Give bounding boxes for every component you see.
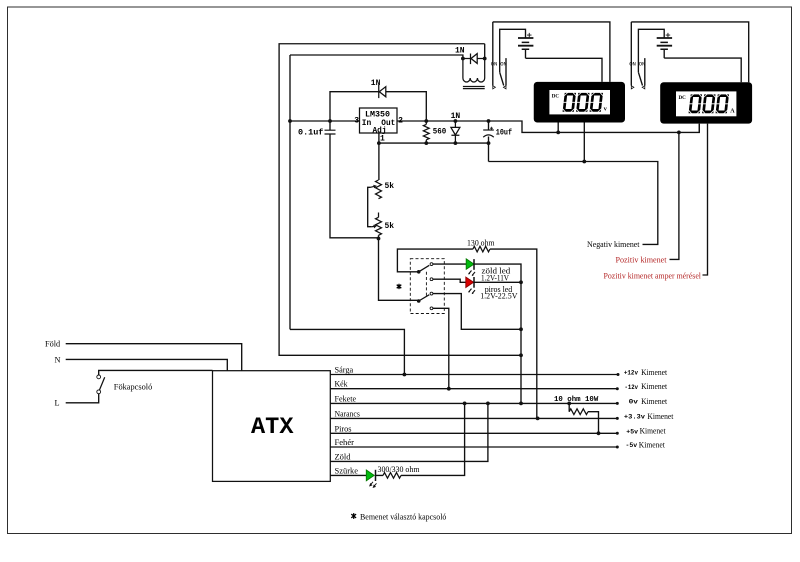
svg-text:Kimenet: Kimenet [641,368,668,377]
junction (426.3,121) [424,119,428,123]
wire main output line y=121 [290,121,699,132]
junction (448.8,388.7) [447,387,451,391]
svg-text:130 ohm: 130 ohm [467,239,495,248]
wire battery B1 terminals [500,29,526,72]
junction (404.4,374.5) [403,373,407,377]
junction (455.4,121) [454,119,458,123]
terminal dot (618,374.5) [617,373,620,376]
potentiometer VR1 5k [371,180,395,199]
diode D2 1N shunt [426,112,460,143]
wire transformer right riser [484,44,486,59]
wire toggle SW2 contacts [493,22,506,86]
svg-text:Sárga: Sárga [335,366,354,375]
transformer T1 with diode D3 1N [455,46,485,88]
svg-text:5k: 5k [385,182,395,191]
svg-text:Kimenet: Kimenet [641,397,668,406]
wire adj rail y=143 [379,142,489,144]
wire contact2 to red led [433,279,521,282]
svg-text:+12v: +12v [624,370,638,378]
terminal dot (617.3,433.3) [616,432,619,435]
terminal dot (617.3,388.7) [616,387,619,390]
junction (426.3,143.1) [424,141,428,145]
svg-text:Szürke: Szürke [335,466,359,475]
svg-text:-12v: -12v [625,384,639,392]
toggle SW3 ON-ON labels and arrows [629,61,645,89]
junction (521,355.3) [519,353,523,357]
svg-text:1.2V-11V: 1.2V-11V [481,274,509,283]
svg-text:0.1uf: 0.1uf [298,129,324,138]
svg-text:5k: 5k [385,222,395,231]
svg-text:Kimenet: Kimenet [647,412,674,421]
junction (678.9,132.4) [677,131,681,135]
wire battery B2 terminals [638,29,664,72]
svg-text:10uf: 10uf [496,128,512,137]
svg-text:Fehér: Fehér [335,438,355,447]
battery B1 [518,33,533,49]
svg-text:L: L [55,399,60,408]
svg-text:Kimenet: Kimenet [641,382,668,391]
svg-text:1: 1 [380,135,385,144]
wire contact1 to green led [433,264,521,403]
junction (464.6,403.4) [463,402,467,406]
svg-text:Fökapcsoló: Fökapcsoló [114,383,153,392]
terminal dot (617.3,403.4) [616,402,619,405]
junction (487.9,403.4) [486,402,490,406]
junction (569.2,403.4) [567,402,571,406]
svg-text:Negativ kimenet: Negativ kimenet [587,240,640,249]
svg-text:+5v: +5v [626,428,638,436]
wire contact4 to -12V [433,308,449,388]
panel meter M1 voltmeter [534,82,625,123]
output terminal dots [616,373,620,449]
svg-text:1N: 1N [371,79,381,88]
resistor R1 560 [423,124,446,139]
junction (290,121) [288,119,292,123]
regulator U1 LM350 [354,108,403,144]
junction (598.5,433.3) [597,431,601,435]
asterisk marker at switch [397,284,402,289]
svg-text:1N: 1N [455,46,465,55]
wire mains L [66,393,99,402]
panel meter M2 ammeter [660,82,752,123]
wire ATX row piros [330,432,617,434]
junction (455.4,143.1) [454,141,458,145]
footnote marker and text [351,513,356,519]
wire pot wiper jumper [368,187,372,226]
junction (484.7,58.5) [483,57,487,61]
svg-text:ON: ON [639,61,646,68]
junction (488.5,143.1) [487,141,491,145]
junction (378.9,143.1) [377,141,381,145]
svg-text:Pozitiv kimenet: Pozitiv kimenet [616,256,668,265]
junction (462.9,58.5) [461,57,465,61]
toggle SW2 ON-ON labels and arrows [491,61,507,89]
svg-text:560: 560 [433,127,447,136]
wire ATX row szurke [330,403,464,475]
svg-text:1.2V-22.5V: 1.2V-22.5V [480,291,517,300]
LED D6 szurke row [366,470,376,488]
LED D5 piros [466,277,475,294]
svg-text:Zöld: Zöld [335,452,352,461]
wire 10uf branch down to negative rail [489,121,658,244]
ATX power supply box [213,371,331,482]
junction (537.6,418.4) [536,417,540,421]
svg-text:Föld: Föld [45,340,61,349]
wire pot2 bottom to switch pole2 [379,235,419,300]
svg-text:3: 3 [354,117,359,126]
resistor R2 130 ohm [467,239,495,252]
wire ATX row zold [330,403,488,461]
wire bypass diode loop [330,92,426,121]
junction (488.5,121) [487,119,491,123]
wire main switch to ATX [99,370,213,375]
svg-text:ON: ON [491,61,498,68]
resistor R4 300/330 ohm [378,465,421,478]
svg-text:A: A [730,108,735,114]
wire +12V riser x=290 [290,55,404,375]
terminal dot (617.3,447) [616,446,619,449]
wire meter A bottom pins [699,124,707,275]
svg-text:In: In [362,119,372,128]
LED D4 zold [466,259,475,276]
svg-text:DC: DC [552,95,560,100]
junction (584.3,161.5) [582,160,586,164]
junction (521,282.3) [519,280,523,284]
wire ATX row feher [330,446,617,448]
wire ATX row narancs [330,417,617,419]
svg-text:DC: DC [679,96,687,101]
svg-text:Bemenet választó kapcsoló: Bemenet választó kapcsoló [360,513,446,522]
diode D1 1N bypass [371,79,386,98]
battery B2 [657,33,672,49]
switch SW1 DPDT input selector [410,259,444,314]
svg-text:N: N [55,355,61,364]
wire LM350 adj pin 1 [378,133,380,180]
svg-text:Narancs: Narancs [335,409,360,418]
svg-text:0v: 0v [629,399,638,407]
svg-text:10 ohm 10W: 10 ohm 10W [554,396,599,404]
main switch SW4 fokapcsolo [97,375,105,394]
resistor R3 10 ohm 10W [554,396,599,415]
wire mains fold [66,344,242,371]
svg-text:Pozitiv kimenet amper mérésel: Pozitiv kimenet amper mérésel [604,271,702,280]
wire 130ohm row y=249 [397,249,536,418]
wire transformer feed y=55 [290,55,463,59]
svg-text:Kék: Kék [335,380,349,389]
junction (330,121) [328,119,332,123]
terminal dot (617.3,418.4) [616,417,619,420]
wire meter V bottom pins [558,123,584,162]
wire ATX row sarga [330,374,618,376]
svg-text:ON: ON [629,61,636,68]
junction (521,329.3) [519,327,523,331]
wire ATX row fekete [330,402,617,404]
svg-text:2: 2 [398,117,403,126]
svg-text:-5v: -5v [626,442,638,450]
wire meter V top feeds [493,22,610,82]
wire toggle SW3 contacts [631,22,645,86]
wire ATX row kek [330,388,617,390]
svg-text:ON: ON [500,61,507,68]
svg-text:ATX: ATX [251,414,294,440]
wire 0.1uf branch to pot bottom [330,121,379,238]
junction (521,403.4) [519,402,523,406]
potentiometer VR2 5k [372,213,395,236]
wire mains N [66,359,228,370]
svg-text:Kimenet: Kimenet [639,440,666,449]
wire pozitiv kimenet drop [670,132,679,259]
wire contact3 to 0V node [433,294,521,330]
wire 10ohm load [569,403,598,433]
wire toggle SW3 lever [638,72,642,85]
capacitor C2 10uf [483,127,512,138]
svg-text:Piros: Piros [335,424,352,433]
wire meter A top feeds [631,22,748,82]
wire ground loop left edge x=279 [279,44,521,356]
svg-text:Kimenet: Kimenet [640,427,667,436]
svg-text:Fekete: Fekete [335,394,357,403]
capacitor C1 0.1uf [298,129,336,138]
junction (558.2,132.4) [556,131,560,135]
junction (378.5,238.5) [377,237,381,241]
wire toggle SW2 lever [500,72,504,85]
svg-text:+3.3v: +3.3v [624,414,645,422]
svg-text:300/330 ohm: 300/330 ohm [378,465,421,474]
